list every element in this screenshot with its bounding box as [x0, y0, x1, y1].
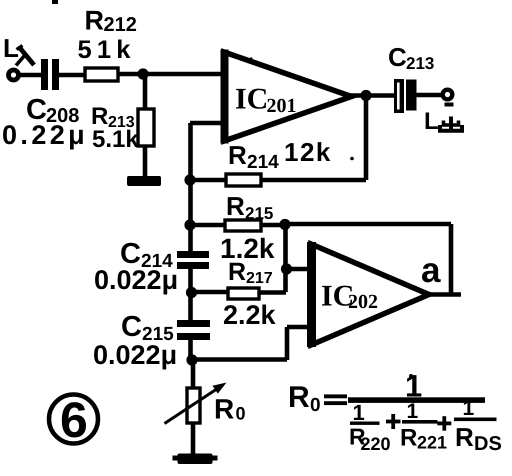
svg-text:0: 0 — [236, 404, 246, 424]
figure number 6 circled — [49, 392, 98, 448]
svg-text:R: R — [400, 425, 417, 452]
svg-text:0.22μ: 0.22μ — [2, 120, 88, 150]
resistor R213 (vertical) — [138, 74, 154, 178]
svg-text:R: R — [228, 140, 247, 170]
rail vertical segment 3 — [188, 340, 193, 361]
svg-text:1: 1 — [407, 400, 419, 423]
svg-text:C: C — [388, 42, 407, 72]
capacitor C214 — [177, 251, 209, 269]
svg-text:1: 1 — [463, 397, 475, 420]
svg-text:215: 215 — [245, 204, 273, 223]
resistor R217 — [191, 288, 286, 299]
label C215 0.022u — [93, 311, 177, 370]
resistor R214 — [226, 174, 261, 186]
wire bottom to IC202 lower input — [192, 327, 312, 360]
svg-text:1: 1 — [353, 400, 365, 425]
svg-text:5.1k: 5.1k — [92, 126, 139, 153]
svg-text:217: 217 — [246, 270, 273, 287]
svg-text:212: 212 — [104, 14, 137, 36]
speck above IC201 — [249, 57, 252, 60]
capacitor C215 — [177, 320, 210, 340]
speck near 12k — [350, 157, 354, 161]
op-amp IC202 — [311, 242, 429, 347]
rail vertical segment 1 — [188, 123, 193, 252]
label R214 12k — [228, 137, 332, 173]
feedback wire IC202 loop — [285, 224, 451, 294]
feedback wire from output down — [261, 95, 366, 180]
svg-text:R: R — [85, 6, 105, 36]
svg-text:R: R — [228, 258, 246, 286]
svg-text:201: 201 — [267, 95, 297, 117]
wire to IC202 top input — [286, 267, 312, 272]
input terminal L — [9, 70, 19, 80]
stray mark top edge — [52, 0, 58, 4]
wire R212 to IC201 input — [118, 72, 224, 77]
label R213 5.1k — [91, 103, 139, 153]
junction rail/R217 — [186, 287, 197, 298]
wire R214 to rail — [190, 178, 226, 183]
svg-text:R: R — [288, 381, 310, 414]
label R0 — [214, 394, 246, 425]
label R215 1.2k — [220, 191, 275, 264]
ground under R213 — [127, 176, 161, 186]
label C213 — [388, 42, 434, 73]
variable resistor R0 — [165, 360, 227, 454]
svg-text:221: 221 — [417, 433, 447, 453]
node junction at R212/R213 — [137, 68, 148, 79]
svg-text:213: 213 — [406, 54, 434, 73]
svg-text:220: 220 — [361, 434, 391, 454]
resistor R212 — [85, 68, 118, 81]
junction rail bottom — [186, 354, 197, 365]
wire IC202 output — [427, 292, 461, 297]
wire IC201 output — [347, 93, 396, 98]
svg-text:IC: IC — [235, 83, 268, 116]
svg-text:6: 6 — [60, 392, 88, 448]
label C208 0.22u — [2, 94, 88, 150]
svg-text:R: R — [214, 394, 234, 425]
svg-text:a: a — [421, 251, 441, 290]
svg-text:0.022μ: 0.022μ — [93, 340, 177, 370]
capacitor C213 — [394, 79, 442, 113]
svg-text:0.022μ: 0.022μ — [94, 265, 178, 295]
svg-text:DS: DS — [474, 433, 502, 455]
capacitor C208 — [41, 59, 59, 90]
svg-text:L: L — [424, 108, 439, 135]
svg-text:51k: 51k — [78, 36, 136, 64]
label L-in (L + katakana nyuu) — [3, 33, 34, 66]
svg-text:2.2k: 2.2k — [223, 300, 277, 330]
junction rail/R214 — [184, 174, 195, 185]
wire terminal to C208 — [18, 73, 42, 78]
junction rail/R215 — [184, 219, 195, 230]
svg-text:202: 202 — [348, 291, 378, 313]
svg-text:R: R — [226, 191, 245, 221]
svg-text:12k: 12k — [284, 137, 332, 167]
junction at IC201 output — [360, 90, 371, 101]
wire IC201 inverting input from rail — [190, 121, 224, 126]
formula R0 = 1 / (1/R220 + 1/R221 + 1/RDS) — [288, 369, 502, 456]
wire C208 to R212 — [59, 73, 86, 78]
speck below IC202 — [409, 374, 413, 378]
junction node a top — [279, 219, 290, 230]
resistor R215 — [190, 220, 286, 231]
label R212 51k — [78, 6, 137, 65]
node label a — [421, 251, 441, 290]
rail vertical segment 2 — [188, 269, 193, 321]
svg-text:C: C — [121, 311, 142, 343]
ground under R0 — [173, 454, 218, 465]
output terminal — [443, 90, 453, 100]
op-amp IC201 — [224, 50, 352, 144]
label L-out (L + kanji de) — [424, 103, 462, 136]
label R217 2.2k — [223, 258, 277, 330]
svg-text:0: 0 — [310, 395, 321, 416]
vertical wire R215/R217 node to input — [283, 224, 288, 292]
svg-text:214: 214 — [247, 152, 279, 173]
label C214 0.022u — [94, 238, 178, 295]
svg-text:R: R — [455, 422, 474, 452]
junction IC202 top input — [281, 263, 292, 274]
